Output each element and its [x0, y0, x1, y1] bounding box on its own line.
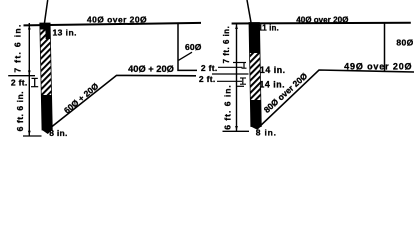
svg-text:60Ø: 60Ø [185, 42, 202, 52]
svg-text:6 ft. 6 in.: 6 ft. 6 in. [223, 84, 233, 129]
svg-text:2 ft.: 2 ft. [201, 63, 218, 73]
svg-text:6 ft. 6 in.: 6 ft. 6 in. [15, 91, 25, 132]
svg-text:49Ø over 20Ø: 49Ø over 20Ø [344, 61, 412, 71]
svg-text:11 in.: 11 in. [258, 23, 279, 32]
svg-text:8 in.: 8 in. [49, 128, 68, 138]
svg-text:40Ø + 20Ø: 40Ø + 20Ø [128, 64, 174, 74]
svg-text:40Ø over 20Ø: 40Ø over 20Ø [296, 16, 348, 25]
svg-text:7 ft. 6 in.: 7 ft. 6 in. [222, 26, 231, 64]
svg-text:7 ft. 6 in.: 7 ft. 6 in. [13, 23, 23, 72]
svg-text:40Ø over 20Ø: 40Ø over 20Ø [87, 14, 147, 24]
svg-text:13 in.: 13 in. [53, 28, 77, 38]
svg-text:14 in.: 14 in. [259, 79, 285, 89]
svg-text:2 ft.: 2 ft. [11, 78, 28, 88]
svg-text:80Ø: 80Ø [396, 38, 413, 48]
svg-text:14 in.: 14 in. [260, 65, 286, 75]
svg-text:2 ft.: 2 ft. [199, 74, 216, 84]
svg-text:8 in.: 8 in. [256, 128, 277, 138]
